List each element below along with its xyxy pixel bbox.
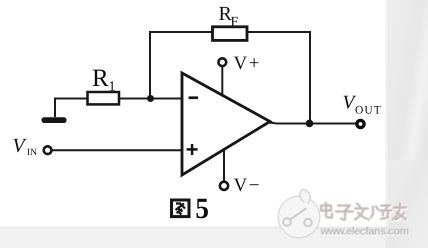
caption 图 5: [172, 200, 190, 217]
ground: [42, 117, 67, 123]
svg-text:F: F: [231, 15, 239, 30]
label Vin: [13, 135, 38, 158]
resistor R1 body: [88, 92, 120, 104]
terminal V-: [220, 182, 228, 190]
svg-text:V+: V+: [234, 53, 261, 74]
wire feedback top left segment: [150, 31, 212, 33]
svg-text:1: 1: [109, 80, 116, 95]
watermark chinese text 电子发烧友 (hand drawn strokes): [322, 204, 407, 221]
wire feedback left vertical: [149, 31, 151, 99]
terminal V+: [218, 58, 226, 66]
op-amp minus sign: [189, 96, 198, 99]
label Vout: [343, 93, 382, 117]
logo circle: [278, 190, 320, 238]
op-amp plus sign: [187, 144, 198, 155]
svg-text:5: 5: [195, 193, 209, 225]
node inverting junction: [147, 95, 154, 102]
node output junction: [306, 120, 314, 128]
wire R1 to inverting input: [119, 98, 182, 100]
wire V+ stem: [221, 66, 223, 97]
wire feedback right vertical: [309, 31, 311, 124]
svg-text:www.elecfans.com: www.elecfans.com: [320, 226, 409, 238]
wire ground to R1: [55, 99, 87, 118]
svg-text:R: R: [92, 65, 109, 92]
op-amp U1 triangle: [182, 73, 270, 175]
bottom gray strip: [0, 227, 428, 248]
terminal Vin: [44, 146, 52, 154]
terminal Vout: [357, 120, 364, 127]
resistor RF label: [219, 3, 239, 30]
resistor RF body: [213, 27, 248, 41]
wire output: [269, 123, 357, 124]
wire feedback top right segment: [247, 31, 310, 33]
svg-text:V−: V−: [234, 175, 261, 196]
watermark corner gray: [388, 160, 428, 248]
wire V- stem: [223, 149, 225, 182]
resistor R1 label: [92, 65, 116, 95]
svg-text:IN: IN: [27, 148, 37, 158]
svg-text:OUT: OUT: [355, 105, 382, 117]
wire Vin to non-inverting input: [52, 149, 183, 151]
